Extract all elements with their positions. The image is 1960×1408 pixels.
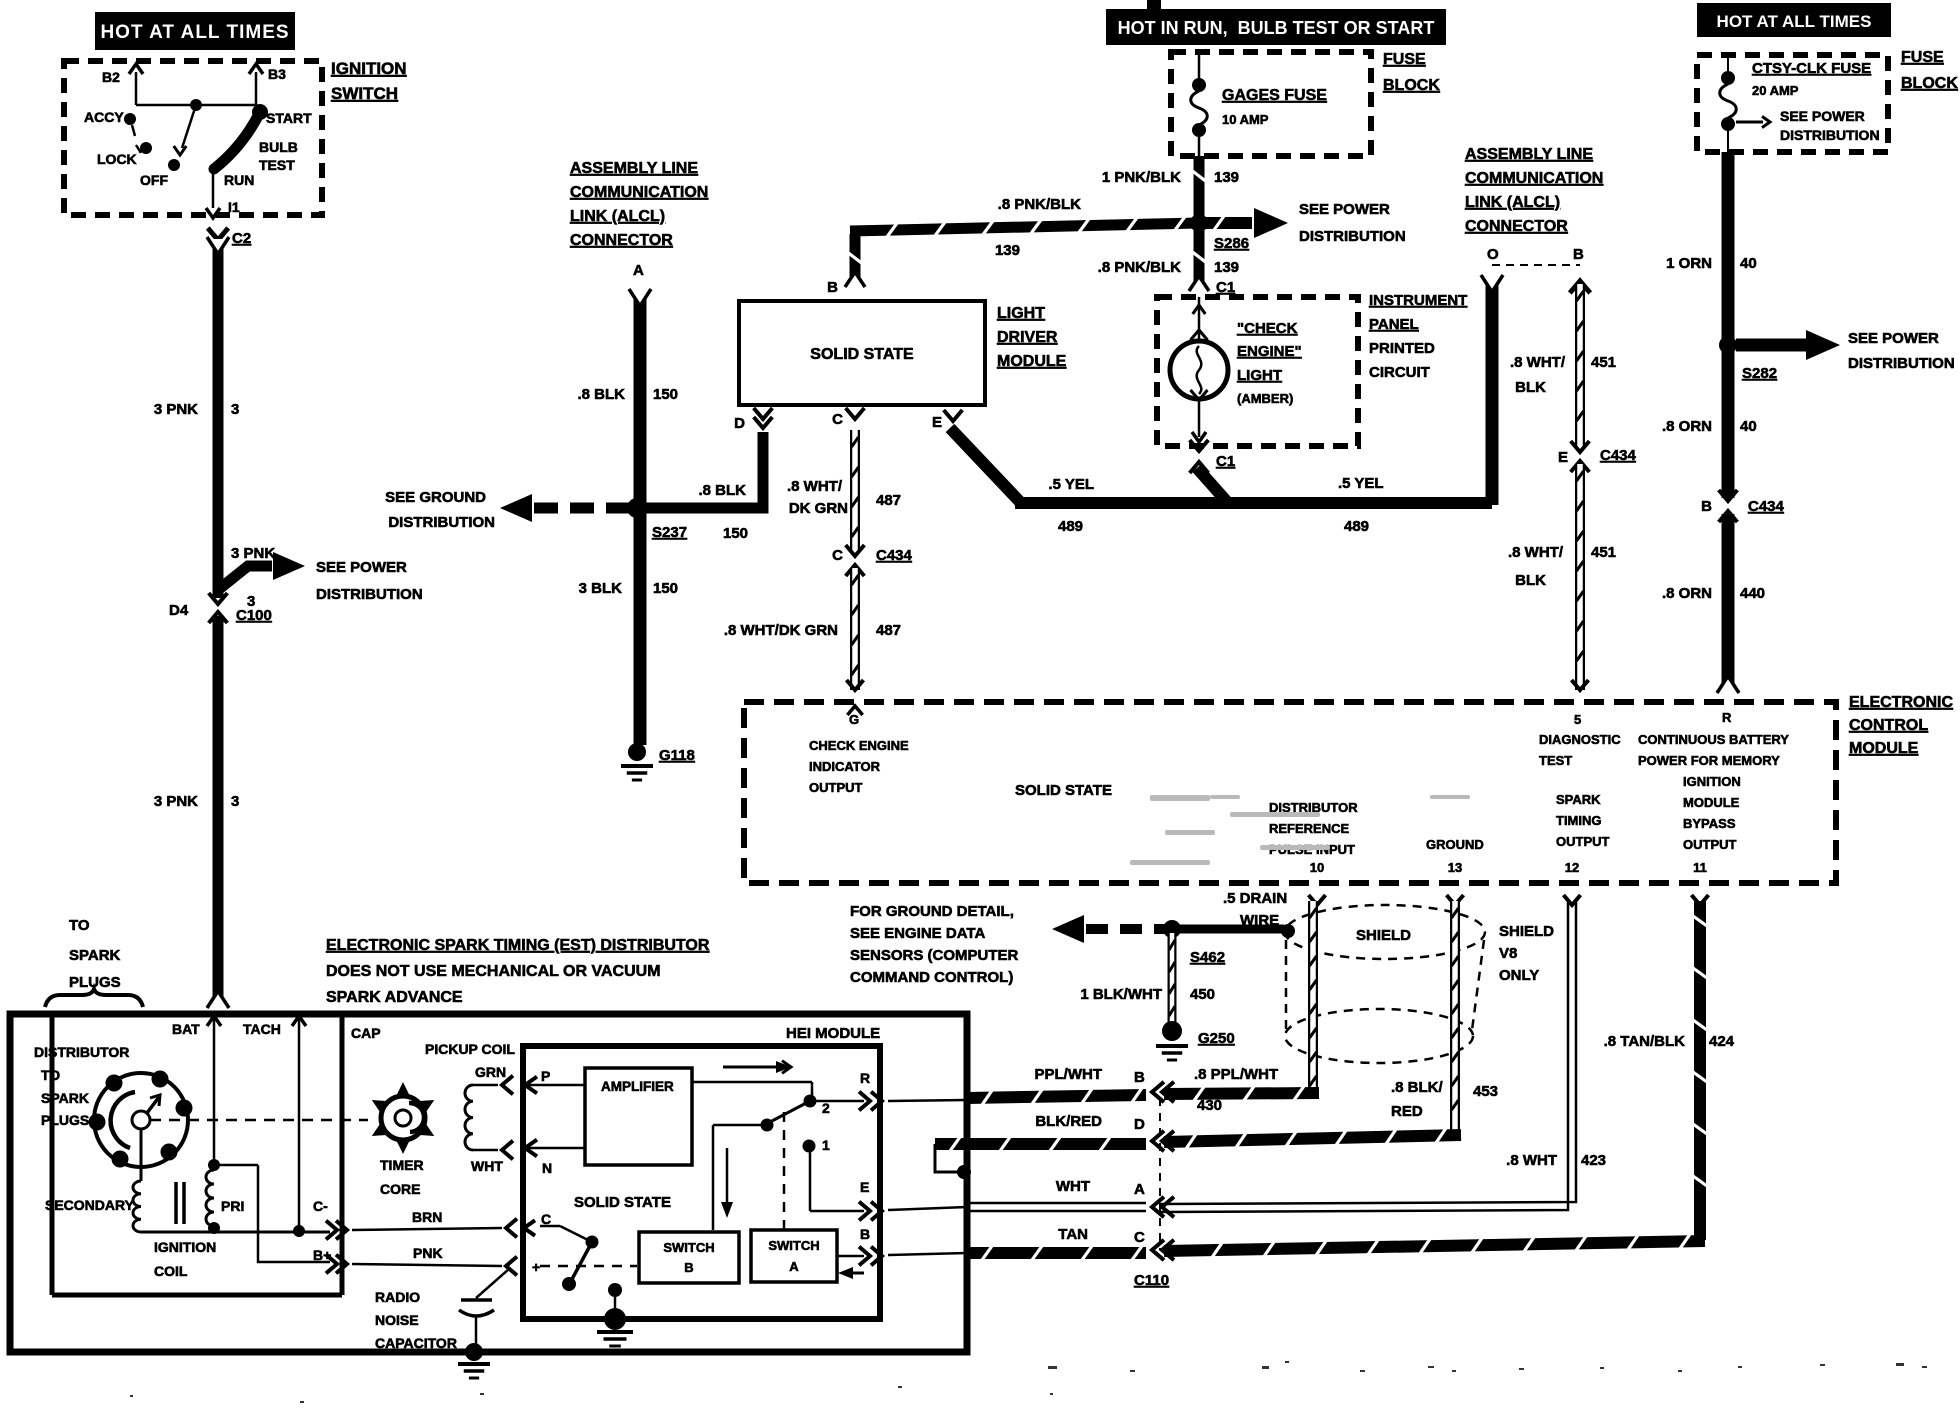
switch B box <box>639 1232 739 1283</box>
svg-text:V8: V8 <box>1499 945 1517 962</box>
wire .8 ORN 440 <box>1662 514 1765 693</box>
svg-text:G118: G118 <box>659 747 695 764</box>
connector C434 (E) <box>1558 441 1637 472</box>
wire ignition switch feed bus <box>136 99 256 111</box>
svg-text:3 PNK: 3 PNK <box>154 793 198 810</box>
svg-text:B: B <box>860 1226 870 1242</box>
ECM pin G check engine indicator output <box>809 706 909 795</box>
light driver module pin B <box>827 279 838 296</box>
wire branch to power distribution at C100 <box>218 545 423 610</box>
wire .8 TAN/BLK 424 from ECM 11 <box>1152 901 1735 1260</box>
svg-text:N: N <box>542 1160 552 1176</box>
svg-text:RADIO: RADIO <box>375 1289 420 1305</box>
svg-text:BLK: BLK <box>1515 572 1546 589</box>
connector C1 lower <box>1190 440 1236 473</box>
svg-text:PPL/WHT: PPL/WHT <box>1035 1066 1103 1083</box>
svg-text:ASSEMBLY LINE: ASSEMBLY LINE <box>1465 146 1593 163</box>
svg-text:DIAGNOSTIC: DIAGNOSTIC <box>1539 732 1621 747</box>
connector C2 <box>208 228 251 247</box>
svg-text:CIRCUIT: CIRCUIT <box>1369 364 1430 381</box>
svg-text:PANEL: PANEL <box>1369 316 1419 333</box>
electronic control module ECM box <box>744 694 1953 883</box>
svg-text:SENSORS (COMPUTER: SENSORS (COMPUTER <box>850 947 1019 964</box>
HEI pin N <box>525 1140 585 1176</box>
svg-text:SEE GROUND: SEE GROUND <box>385 489 486 506</box>
svg-text:3: 3 <box>231 793 239 810</box>
svg-text:430: 430 <box>1197 1097 1222 1114</box>
svg-text:SPARK: SPARK <box>41 1090 89 1106</box>
svg-text:C: C <box>832 547 843 564</box>
svg-text:C434: C434 <box>876 547 913 564</box>
HEI internal EST switch <box>692 1082 864 1230</box>
svg-text:D: D <box>1134 1116 1145 1133</box>
ignition coil core <box>176 1182 184 1224</box>
ignition switch rotor contact to OFF <box>168 105 196 171</box>
svg-text:GAGES FUSE: GAGES FUSE <box>1222 87 1327 104</box>
wire WHT HEI E to C110 A <box>967 1203 1146 1211</box>
svg-text:1 PNK/BLK: 1 PNK/BLK <box>1102 169 1181 186</box>
connector C100 <box>169 593 272 624</box>
svg-text:PLUGS: PLUGS <box>41 1112 89 1128</box>
svg-text:CONNECTOR: CONNECTOR <box>570 232 673 249</box>
svg-text:139: 139 <box>1214 169 1239 186</box>
svg-text:489: 489 <box>1058 518 1083 535</box>
wire coil common bottom <box>141 1231 330 1234</box>
svg-text:START: START <box>266 110 312 126</box>
HEI pin R <box>814 1070 967 1110</box>
light driver module pin C <box>832 408 864 428</box>
svg-text:IGNITION: IGNITION <box>1683 774 1741 789</box>
svg-text:SHIELD: SHIELD <box>1356 927 1411 944</box>
svg-text:.8 BLK/: .8 BLK/ <box>1391 1079 1444 1096</box>
svg-text:2: 2 <box>822 1100 830 1116</box>
svg-text:OUTPUT: OUTPUT <box>1556 834 1610 849</box>
svg-text:TIMING: TIMING <box>1556 813 1602 828</box>
svg-text:CONTROL: CONTROL <box>1849 717 1928 734</box>
svg-text:12: 12 <box>1565 860 1579 875</box>
banner HOT AT ALL TIMES (left) <box>95 12 295 50</box>
splice S237 and see ground distribution <box>385 489 687 541</box>
shield cylinder <box>1285 905 1554 1063</box>
svg-text:E: E <box>860 1179 869 1195</box>
svg-text:450: 450 <box>1190 986 1215 1003</box>
svg-text:DK GRN: DK GRN <box>789 500 848 517</box>
wire BLK/RED C110 D to distributor case ground <box>935 1137 1146 1179</box>
radio noise capacitor <box>375 1269 509 1378</box>
svg-text:P: P <box>541 1068 550 1084</box>
banner HOT AT ALL TIMES (right) <box>1697 3 1891 37</box>
svg-text:DISTRIBUTION: DISTRIBUTION <box>316 586 423 603</box>
svg-text:D4: D4 <box>169 602 189 619</box>
wire .8 ORN 40 <box>1662 347 1757 498</box>
svg-text:CAP: CAP <box>351 1025 381 1041</box>
wire .8 WHT/DK GRN 487 upper <box>787 430 901 553</box>
wire .8 WHT/BLK 451 lower <box>1508 464 1616 690</box>
svg-text:LIGHT: LIGHT <box>1237 367 1282 384</box>
svg-text:10 AMP: 10 AMP <box>1222 112 1269 127</box>
svg-text:ACCY: ACCY <box>84 109 124 125</box>
svg-text:C1: C1 <box>1216 453 1235 470</box>
terminal B+ to HEI <box>214 1165 540 1275</box>
svg-text:.8 PNK/BLK: .8 PNK/BLK <box>1098 259 1182 276</box>
svg-text:3 PNK: 3 PNK <box>231 545 275 562</box>
svg-text:11: 11 <box>1693 860 1707 875</box>
svg-text:G250: G250 <box>1198 1030 1235 1047</box>
direction arrow top <box>723 1061 791 1074</box>
pickup coil <box>425 1041 515 1174</box>
svg-text:D: D <box>734 415 745 432</box>
svg-text:C1: C1 <box>1216 279 1235 296</box>
light driver module pin D <box>734 408 772 432</box>
svg-text:.8 WHT/: .8 WHT/ <box>1510 354 1566 371</box>
wire .8 BLK 150 <box>577 289 678 745</box>
svg-text:5: 5 <box>1574 712 1581 727</box>
svg-text:C2: C2 <box>232 230 251 247</box>
svg-text:.8 WHT/DK GRN: .8 WHT/DK GRN <box>724 622 838 639</box>
svg-text:1: 1 <box>822 1137 830 1153</box>
svg-text:+: + <box>532 1259 540 1275</box>
svg-text:B: B <box>1701 498 1712 515</box>
svg-text:BAT: BAT <box>172 1021 200 1037</box>
svg-text:B: B <box>1573 246 1584 263</box>
svg-text:SWITCH: SWITCH <box>663 1240 714 1255</box>
svg-text:WHT: WHT <box>1056 1178 1090 1195</box>
svg-text:PICKUP COIL: PICKUP COIL <box>425 1041 515 1057</box>
svg-text:.8 ORN: .8 ORN <box>1662 418 1712 435</box>
svg-text:COIL: COIL <box>154 1263 188 1279</box>
EST distributor title <box>326 937 710 1006</box>
svg-text:ENGINE": ENGINE" <box>1237 343 1302 360</box>
svg-text:B2: B2 <box>102 69 120 85</box>
fuse block box (gages) <box>1171 51 1440 156</box>
svg-text:.8 TAN/BLK: .8 TAN/BLK <box>1604 1033 1686 1050</box>
ignition switch LOCK contact <box>97 142 152 167</box>
svg-text:WIRE: WIRE <box>1240 912 1279 929</box>
svg-text:HOT AT ALL TIMES: HOT AT ALL TIMES <box>1717 12 1872 31</box>
svg-text:TAN: TAN <box>1058 1226 1088 1243</box>
ignition switch terminal B3 <box>249 64 286 105</box>
connector C434 (B) <box>1701 490 1784 522</box>
svg-text:.8 WHT/: .8 WHT/ <box>1508 544 1564 561</box>
svg-text:20 AMP: 20 AMP <box>1752 83 1799 98</box>
svg-text:.5 DRAIN: .5 DRAIN <box>1223 890 1287 907</box>
svg-text:B: B <box>827 279 838 296</box>
svg-text:SHIELD: SHIELD <box>1499 923 1554 940</box>
instrument panel printed circuit box <box>1157 292 1467 446</box>
wire 1 ORN 40 <box>1666 152 1757 343</box>
svg-text:S237: S237 <box>652 524 687 541</box>
svg-text:TEST: TEST <box>259 157 295 173</box>
svg-text:.8 WHT/: .8 WHT/ <box>787 478 843 495</box>
svg-text:A: A <box>1134 1181 1145 1198</box>
splice S282 + see power distribution arrow <box>1719 330 1955 382</box>
svg-text:SPARK ADVANCE: SPARK ADVANCE <box>326 989 463 1006</box>
svg-text:SOLID STATE: SOLID STATE <box>574 1194 671 1211</box>
wire .8 BLK/RED 453 from ECM 13 <box>1152 901 1498 1151</box>
ECM pin 11 ignition module bypass output <box>1683 774 1741 905</box>
svg-text:LOCK: LOCK <box>97 151 137 167</box>
svg-text:SECONDARY: SECONDARY <box>45 1197 135 1213</box>
gages fuse 10A <box>1191 52 1327 156</box>
HEI pin B <box>837 1226 967 1279</box>
EST distributor outer box <box>10 1014 967 1352</box>
svg-text:SEE ENGINE DATA: SEE ENGINE DATA <box>850 925 985 942</box>
svg-text:CORE: CORE <box>380 1181 420 1197</box>
check engine light bulb <box>1170 297 1302 442</box>
splice S286 + see power distribution arrow <box>1190 201 1406 252</box>
svg-text:.5 YEL: .5 YEL <box>1048 476 1094 493</box>
svg-text:TO: TO <box>41 1067 60 1083</box>
svg-text:REFERENCE: REFERENCE <box>1269 821 1350 836</box>
distributor cap circle with terminals <box>89 1071 193 1168</box>
distributor cap sub box <box>52 1014 342 1295</box>
svg-text:BYPASS: BYPASS <box>1683 816 1736 831</box>
svg-text:ELECTRONIC: ELECTRONIC <box>1849 694 1953 711</box>
wire 1 PNK/BLK 139 <box>1102 156 1239 220</box>
svg-text:GROUND: GROUND <box>1426 837 1484 852</box>
scan noise specks bottom <box>130 1361 1927 1403</box>
svg-text:3 BLK: 3 BLK <box>579 580 623 597</box>
svg-text:SPARK: SPARK <box>1556 792 1601 807</box>
svg-text:DISTRIBUTION: DISTRIBUTION <box>1299 228 1406 245</box>
svg-text:C-: C- <box>313 1198 328 1214</box>
svg-text:SEE POWER: SEE POWER <box>316 559 407 576</box>
svg-text:487: 487 <box>876 622 901 639</box>
svg-text:TACH: TACH <box>243 1021 281 1037</box>
svg-text:NOISE: NOISE <box>375 1312 419 1328</box>
svg-text:BULB: BULB <box>259 139 298 155</box>
wire PPL/WHT HEI R to C110 B <box>967 1088 1146 1105</box>
svg-text:R: R <box>860 1070 870 1086</box>
svg-text:3 PNK: 3 PNK <box>154 401 198 418</box>
svg-text:40: 40 <box>1740 418 1757 435</box>
svg-text:E: E <box>932 414 942 431</box>
svg-text:POWER FOR MEMORY: POWER FOR MEMORY <box>1638 753 1780 768</box>
svg-text:COMMAND CONTROL): COMMAND CONTROL) <box>850 969 1013 986</box>
svg-text:SOLID STATE: SOLID STATE <box>1015 782 1112 799</box>
svg-text:AMPLIFIER: AMPLIFIER <box>601 1079 674 1094</box>
wire .5 drain wire for ground detail <box>850 890 1295 986</box>
svg-text:"CHECK: "CHECK <box>1237 320 1298 337</box>
connector C434 (C) <box>832 545 912 576</box>
svg-text:INDICATOR: INDICATOR <box>809 759 881 774</box>
svg-text:CONNECTOR: CONNECTOR <box>1465 218 1568 235</box>
svg-text:INSTRUMENT: INSTRUMENT <box>1369 292 1467 309</box>
svg-text:S282: S282 <box>1742 365 1777 382</box>
svg-text:440: 440 <box>1740 585 1765 602</box>
scan noise inside ECM <box>1130 795 1470 865</box>
ALCL pin A <box>633 262 644 279</box>
wire ALCL O to .5 YEL junction <box>1481 275 1503 505</box>
svg-text:WHT: WHT <box>471 1158 503 1174</box>
svg-text:RED: RED <box>1391 1103 1423 1120</box>
svg-text:CAPACITOR: CAPACITOR <box>375 1335 457 1351</box>
svg-text:SWITCH: SWITCH <box>331 84 398 103</box>
svg-text:1 ORN: 1 ORN <box>1666 255 1712 272</box>
ECM pin 5 diagnostic test <box>1539 712 1621 768</box>
svg-text:RUN: RUN <box>224 172 254 188</box>
ignition coil primary winding PRI <box>206 1170 244 1234</box>
svg-text:SPARK: SPARK <box>69 947 121 964</box>
svg-text:SEE POWER: SEE POWER <box>1780 108 1865 124</box>
svg-text:ASSEMBLY LINE: ASSEMBLY LINE <box>570 160 698 177</box>
svg-text:B: B <box>684 1260 693 1275</box>
svg-text:MODULE: MODULE <box>997 353 1067 370</box>
splice S462 wire 1 BLK/WHT 450 <box>1080 933 1225 1022</box>
svg-text:BRN: BRN <box>412 1209 442 1225</box>
wire .8 BLK 150 to light driver module D <box>637 432 763 542</box>
svg-text:PNK: PNK <box>413 1245 443 1261</box>
svg-text:C100: C100 <box>236 607 272 624</box>
svg-text:C110: C110 <box>1134 1272 1169 1289</box>
wire .8 WHT 423 from ECM 12 <box>1152 901 1606 1217</box>
svg-text:MODULE: MODULE <box>1849 740 1919 757</box>
ignition switch label <box>331 59 407 103</box>
light driver module pin E <box>932 410 962 431</box>
svg-text:(AMBER): (AMBER) <box>1237 391 1293 406</box>
svg-text:OUTPUT: OUTPUT <box>809 780 863 795</box>
ignition switch I1 output <box>206 170 240 218</box>
svg-text:BLOCK: BLOCK <box>1383 77 1440 94</box>
svg-text:COMMUNICATION: COMMUNICATION <box>1465 170 1603 187</box>
svg-text:.8 BLK: .8 BLK <box>577 386 625 403</box>
svg-text:CTSY-CLK FUSE: CTSY-CLK FUSE <box>1752 60 1871 77</box>
svg-text:C: C <box>541 1211 551 1227</box>
HEI module box <box>523 1025 880 1319</box>
svg-text:.8 ORN: .8 ORN <box>1662 585 1712 602</box>
svg-text:O: O <box>1487 246 1499 263</box>
switch A box <box>751 1230 837 1282</box>
distributor label <box>34 1044 129 1128</box>
svg-text:TO: TO <box>69 917 90 934</box>
svg-text:.8 BLK: .8 BLK <box>698 482 746 499</box>
ECM pin R continuous battery power <box>1638 710 1789 768</box>
svg-text:ELECTRONIC SPARK TIMING (EST): ELECTRONIC SPARK TIMING (EST) DISTRIBUTO… <box>326 937 710 954</box>
svg-text:R: R <box>1722 710 1732 725</box>
banner HOT IN RUN BULB TEST OR START <box>1106 0 1446 45</box>
svg-text:453: 453 <box>1473 1083 1498 1100</box>
svg-text:SOLID STATE: SOLID STATE <box>810 346 914 363</box>
svg-text:OUTPUT: OUTPUT <box>1683 837 1737 852</box>
svg-text:DISTRIBUTION: DISTRIBUTION <box>1780 127 1880 143</box>
svg-text:PRI: PRI <box>221 1198 244 1214</box>
ECM pin 12 spark timing output <box>1556 792 1610 905</box>
wire .8 WHT/BLK 451 upper <box>1510 284 1616 449</box>
svg-text:C434: C434 <box>1748 498 1785 515</box>
wire 3 PNK circuit 3 lower <box>154 616 240 1008</box>
ignition coil secondary winding <box>45 1129 141 1232</box>
svg-text:G: G <box>849 712 859 727</box>
svg-text:C434: C434 <box>1600 447 1637 464</box>
svg-text:HOT IN RUN, BULB TEST OR STAR: HOT IN RUN, BULB TEST OR START <box>1118 18 1435 38</box>
svg-text:.8 PPL/WHT: .8 PPL/WHT <box>1194 1066 1278 1083</box>
svg-text:.5 YEL: .5 YEL <box>1338 475 1384 492</box>
ignition coil label <box>154 1239 216 1279</box>
svg-text:C: C <box>832 411 843 428</box>
wire .8 PNK/BLK 139 hatched to S286 <box>845 196 1199 287</box>
svg-text:487: 487 <box>876 492 901 509</box>
ALCL connector label (right) <box>1465 146 1603 235</box>
svg-text:LIGHT: LIGHT <box>997 305 1045 322</box>
svg-text:C: C <box>1134 1229 1145 1246</box>
svg-text:OFF: OFF <box>140 172 168 188</box>
ground G250 <box>1156 1021 1235 1060</box>
HEI pin E <box>859 1179 967 1220</box>
wire .5 YEL 489 from E to C1 and ALCL O <box>950 428 1492 535</box>
svg-text:DISTRIBUTOR: DISTRIBUTOR <box>34 1044 129 1060</box>
svg-text:DOES NOT USE MECHANICAL OR VAC: DOES NOT USE MECHANICAL OR VACUUM <box>326 963 661 980</box>
svg-text:150: 150 <box>723 525 748 542</box>
ctsy-clk fuse 20A <box>1720 55 1880 152</box>
svg-text:MODULE: MODULE <box>1683 795 1740 810</box>
svg-text:S462: S462 <box>1190 949 1225 966</box>
svg-text:LINK (ALCL): LINK (ALCL) <box>1465 194 1560 211</box>
svg-text:CONTINUOUS BATTERY: CONTINUOUS BATTERY <box>1638 732 1789 747</box>
svg-text:B3: B3 <box>268 66 286 82</box>
ECM pin 13 ground <box>1426 837 1484 905</box>
ignition switch box <box>64 61 322 215</box>
svg-text:10: 10 <box>1310 860 1324 875</box>
terminal TACH <box>243 1016 306 1237</box>
to spark plugs label + brace <box>45 917 143 1007</box>
ignition switch terminal B2 <box>102 64 143 105</box>
wire .8 PNK/BLK 139 into C1 <box>1098 227 1239 296</box>
svg-text:SEE POWER: SEE POWER <box>1848 330 1939 347</box>
svg-text:424: 424 <box>1709 1033 1735 1050</box>
svg-text:FOR GROUND DETAIL,: FOR GROUND DETAIL, <box>850 903 1014 920</box>
ALCL pins O and B <box>1487 246 1590 293</box>
svg-text:150: 150 <box>653 580 678 597</box>
light driver module U1 <box>739 301 1067 405</box>
amplifier <box>585 1068 692 1165</box>
HEI pin P <box>525 1068 585 1093</box>
svg-text:BLOCK: BLOCK <box>1901 75 1958 92</box>
terminal BAT <box>172 1016 221 1171</box>
ignition switch START-RUN arc <box>214 104 312 188</box>
svg-text:SWITCH: SWITCH <box>768 1238 819 1253</box>
svg-text:LINK (ALCL): LINK (ALCL) <box>570 208 665 225</box>
svg-text:451: 451 <box>1591 354 1616 371</box>
svg-text:.8 WHT: .8 WHT <box>1506 1152 1557 1169</box>
svg-text:CHECK ENGINE: CHECK ENGINE <box>809 738 909 753</box>
svg-text:GRN: GRN <box>475 1064 506 1080</box>
svg-text:FUSE: FUSE <box>1383 51 1426 68</box>
svg-text:.8 PNK/BLK: .8 PNK/BLK <box>998 196 1082 213</box>
svg-text:SEE POWER: SEE POWER <box>1299 201 1390 218</box>
svg-text:A: A <box>633 262 644 279</box>
fuse block box (ctsy-clk) <box>1697 49 1958 152</box>
svg-text:B: B <box>1134 1069 1145 1086</box>
svg-text:DRIVER: DRIVER <box>997 329 1058 346</box>
ground G118 <box>621 743 695 780</box>
dashed shaft line distributor to timer core <box>150 1119 368 1122</box>
svg-text:489: 489 <box>1344 518 1369 535</box>
wire .8 PPL/WHT 430 from ECM 10 <box>1152 901 1319 1114</box>
svg-text:S286: S286 <box>1214 235 1249 252</box>
svg-text:451: 451 <box>1591 544 1616 561</box>
ALCL connector label (left) <box>570 160 708 249</box>
ignition switch ACCY contact <box>84 109 136 136</box>
svg-text:HOT AT ALL TIMES: HOT AT ALL TIMES <box>100 22 289 43</box>
svg-text:139: 139 <box>1214 259 1239 276</box>
wire TAN HEI B to C110 C <box>967 1246 1146 1260</box>
svg-text:TEST: TEST <box>1539 753 1572 768</box>
svg-text:PRINTED: PRINTED <box>1369 340 1435 357</box>
svg-text:TIMER: TIMER <box>380 1157 424 1173</box>
svg-text:A: A <box>789 1259 799 1274</box>
timer core star <box>372 1082 434 1197</box>
svg-text:BLK: BLK <box>1515 379 1546 396</box>
